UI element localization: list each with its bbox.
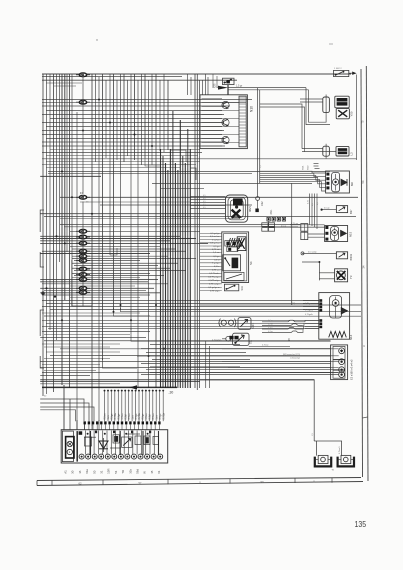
- svg-text:0,7sw: 0,7sw: [268, 320, 273, 322]
- wire R9 to N14 bends: [302, 320, 305, 332]
- svg-text:0,5 gn: 0,5 gn: [324, 208, 330, 210]
- relay N15 unit: [325, 226, 348, 242]
- inductor L3: [323, 144, 349, 159]
- wire switch S62 drop: [356, 75, 358, 161]
- fuse F3: [76, 229, 90, 233]
- fuse F1 main: [76, 191, 90, 200]
- wire main vertical bus x197: [196, 74, 198, 390]
- svg-text:15: 15: [150, 470, 154, 474]
- fuse F7: [76, 254, 90, 258]
- wire lower middle rows: [137, 339, 339, 374]
- wire E2 feed lines: [222, 349, 339, 373]
- wire Y50 feed bend: [300, 88, 330, 125]
- svg-text:,30: ,30: [169, 391, 174, 395]
- fuse F1 top: [76, 73, 90, 77]
- label drop bundle wires: [105, 413, 166, 420]
- svg-text:0,75sw: 0,75sw: [262, 344, 269, 346]
- svg-text:0,75gn/b: 0,75gn/b: [305, 314, 314, 316]
- svg-text:X6/1: X6/1: [270, 209, 273, 215]
- fuse F11: [76, 277, 90, 281]
- svg-text:0,5gn: 0,5gn: [112, 413, 114, 420]
- wire N10 to X32 vertical pair: [258, 88, 262, 197]
- fuse F13: [76, 290, 90, 294]
- stray scan speck right: [329, 43, 333, 45]
- svg-text:L3: L3: [350, 152, 354, 156]
- svg-text:0,75sw/1: 0,75sw/1: [339, 446, 341, 454]
- wire M6/1 feeds: [190, 195, 225, 209]
- ground W11 right cup: [338, 455, 354, 466]
- frame bottom scale bar: [37, 478, 363, 486]
- junction arrow on top feed: [218, 86, 228, 90]
- svg-text:50: 50: [92, 470, 96, 474]
- fuse F10: [76, 272, 90, 276]
- junction blob left edge: [41, 292, 56, 298]
- svg-text:W: W: [332, 470, 335, 472]
- wire X6/1 to N15: [269, 221, 325, 227]
- svg-text:54: 54: [114, 470, 118, 474]
- wire long row y316: [204, 314, 361, 316]
- svg-text:0,5: 0,5: [203, 201, 206, 203]
- bus terminal 30 arrow: [42, 385, 177, 394]
- wire Y3 feeds: [302, 261, 335, 280]
- svg-text:schwarz/gn: schwarz/gn: [290, 358, 300, 360]
- svg-text:S11: S11: [250, 339, 253, 344]
- svg-text:0,5sw: 0,5sw: [105, 413, 107, 419]
- switch S62 top right: [334, 68, 357, 76]
- svg-text:90: 90: [260, 480, 264, 484]
- wire N14 left pins: [303, 301, 319, 329]
- svg-text:X25/: X25/: [215, 83, 217, 88]
- svg-text:X: X: [313, 479, 315, 483]
- svg-text:30: 30: [44, 396, 47, 398]
- svg-text:X: X: [362, 345, 366, 347]
- svg-text:0,75sw/ws: 0,75sw/ws: [212, 339, 221, 341]
- fuse F12: [76, 286, 90, 290]
- wire top feed to Y50 a: [228, 87, 306, 89]
- stray scan speck left: [96, 39, 97, 40]
- connector plugs left of N15: [301, 224, 308, 240]
- svg-text:0,5ge: 0,5ge: [119, 413, 121, 420]
- svg-text:0,5ge: 0,5ge: [143, 413, 145, 420]
- svg-text:A1: A1: [64, 470, 68, 474]
- svg-text:0,5sw: 0,5sw: [129, 413, 131, 419]
- svg-text:E2 e160 e3 e4 e5: E2 e160 e3 e4 e5: [349, 359, 353, 380]
- wire bottom-left bend rows: [40, 396, 94, 422]
- fuse F4: [76, 235, 90, 239]
- svg-text:(W): (W): [292, 303, 296, 305]
- connector pair inline a: [262, 223, 275, 227]
- connector X32: [255, 197, 264, 213]
- wire keyline horizontal y183: [152, 183, 312, 188]
- svg-text:N14: N14: [349, 334, 353, 340]
- svg-text:0,5: 0,5: [312, 202, 314, 206]
- wire N10 top feed verticals: [188, 74, 229, 95]
- wire main vertical bus x199: [199, 80, 201, 388]
- wire left edge corner brackets: [40, 210, 44, 368]
- wire top bus line 5: [54, 85, 76, 87]
- instrument cluster A1 box: [61, 430, 168, 463]
- svg-text:61e: 61e: [85, 469, 89, 474]
- svg-text:1,5sw: 1,5sw: [146, 413, 148, 419]
- svg-text:0,7sw: 0,7sw: [268, 327, 273, 329]
- switch S63 small top: [223, 78, 235, 84]
- svg-text:0,75br: 0,75br: [162, 413, 165, 420]
- svg-text:1,5: 1,5: [260, 164, 262, 168]
- svg-text:S4: S4: [249, 261, 253, 265]
- svg-text:16: 16: [78, 470, 82, 474]
- svg-text:1sw: 1sw: [156, 415, 158, 419]
- svg-text:58d: 58d: [136, 469, 140, 474]
- svg-text:Y50: Y50: [350, 111, 354, 116]
- svg-text:0,5: 0,5: [203, 195, 206, 197]
- svg-text:Y3: Y3: [349, 275, 353, 279]
- wire ground drop bundle: [312, 380, 342, 456]
- fuse F5: [76, 241, 90, 245]
- svg-text:1,5sw: 1,5sw: [122, 413, 124, 419]
- svg-text:0,5gn: 0,5gn: [136, 413, 138, 420]
- svg-text:135: 135: [355, 520, 367, 529]
- wire bundle below M6: [308, 194, 320, 230]
- connector E2 terminal block: [331, 345, 348, 380]
- wire N15 feeds: [290, 223, 325, 237]
- svg-text:15R: 15R: [107, 468, 111, 473]
- svg-text:X5/2: X5/2: [308, 165, 310, 170]
- svg-text:0,5 sw/gn: 0,5 sw/gn: [308, 251, 317, 253]
- svg-text:31: 31: [100, 470, 104, 474]
- wire bus to ground bend: [200, 379, 314, 381]
- svg-text:B30/1: B30/1: [350, 253, 353, 260]
- svg-text:0,5sw: 0,5sw: [153, 413, 155, 419]
- svg-text:S16: S16: [241, 286, 244, 291]
- wire drop bundle to instrument cluster: [104, 390, 165, 422]
- svg-text:W: W: [143, 471, 147, 474]
- frame right inner border line: [361, 69, 363, 477]
- motor M6 relay unit: [326, 171, 350, 193]
- switch S4 ignition assembly: [222, 232, 249, 283]
- connector pair inline b: [262, 228, 275, 232]
- wire top feed to Y50 b: [228, 89, 309, 91]
- connector X5 tick labels: [303, 164, 320, 171]
- switch S11: [222, 333, 253, 345]
- frame right outer border line: [366, 66, 368, 481]
- svg-text:0,75br: 0,75br: [114, 413, 117, 420]
- wire bundle into M6: [260, 171, 326, 191]
- svg-text:0,5bl: 0,5bl: [150, 414, 152, 420]
- wire L3 feeds: [260, 104, 336, 152]
- svg-text:0,5 gr: 0,5 gr: [281, 225, 286, 227]
- wire corner bends mid-left: [103, 158, 205, 368]
- frame right border tick labels: [361, 120, 368, 418]
- svg-text:X5/1: X5/1: [303, 165, 305, 170]
- sensor B30/1: [301, 251, 348, 258]
- connector pin block a: [225, 241, 239, 246]
- connector pin block b: [227, 247, 238, 252]
- wire main vertical bus x195: [194, 74, 196, 388]
- connector X6/1 pin row: [267, 209, 286, 221]
- connector X25/8 labels: [213, 74, 221, 88]
- svg-text:1,5 gr: 1,5 gr: [236, 85, 242, 88]
- wire keyline vertical x259: [259, 90, 261, 183]
- svg-text:1sw: 1sw: [132, 415, 134, 419]
- wire label column center: [200, 233, 222, 292]
- wire long row y311: [200, 310, 361, 312]
- motor M6/1 pump: [226, 195, 248, 222]
- svg-text:S10/1: S10/1: [252, 322, 255, 329]
- svg-text:N10: N10: [250, 106, 254, 112]
- svg-text:(W) braun/sw (179): (W) braun/sw (179): [283, 354, 300, 356]
- fuse F8: [76, 258, 90, 262]
- wire S11 out: [249, 344, 290, 346]
- svg-text:1sw: 1sw: [108, 415, 110, 419]
- sensor B27: [321, 206, 348, 213]
- wire keyline vertical x291: [291, 183, 293, 305]
- ground W10 left cup: [315, 455, 331, 466]
- svg-text:0,75gn: 0,75gn: [305, 303, 311, 305]
- relay N14 preglow unit: [319, 293, 350, 340]
- wire top bus line 3: [42, 79, 237, 81]
- svg-text:M6/1: M6/1: [248, 206, 252, 212]
- switch S16: [224, 284, 244, 291]
- svg-text:30: 30: [71, 470, 75, 474]
- wire left feeds to cluster: [77, 420, 99, 430]
- svg-text:0,5: 0,5: [203, 198, 206, 200]
- svg-text:0,75gn/w: 0,75gn/w: [305, 310, 314, 312]
- svg-text:0,5 br: 0,5 br: [214, 265, 220, 268]
- svg-text:0,5: 0,5: [203, 207, 206, 209]
- svg-text:B27: B27: [349, 209, 353, 214]
- wire left horizontal wire rows: [40, 100, 358, 384]
- svg-text:0,5: 0,5: [203, 204, 206, 206]
- svg-text:X32: X32: [260, 201, 264, 206]
- solenoid valve Y50 assembly: [323, 95, 350, 119]
- svg-text:0,75 sw: 0,75 sw: [291, 223, 298, 225]
- label terminal designations under A1: [64, 468, 162, 473]
- svg-text:0,75br: 0,75br: [138, 413, 141, 420]
- svg-text:M6: M6: [350, 182, 354, 186]
- wire bundle step corners: [171, 150, 197, 180]
- svg-text:TD: TD: [121, 470, 125, 474]
- wire middle vertical cable bundle: [161, 111, 191, 388]
- solenoid valve Y3: [335, 269, 348, 282]
- svg-text:62: 62: [78, 482, 82, 486]
- wire A1 left risers: [64, 385, 70, 430]
- svg-text:0,7sw: 0,7sw: [268, 324, 273, 326]
- svg-text:61: 61: [157, 470, 161, 474]
- wire left vertical bus bundle: [43, 74, 209, 429]
- switch S10/1 group: [219, 318, 255, 330]
- connector pin row above cluster: [84, 421, 161, 430]
- wire top bus line 4: [46, 82, 82, 84]
- svg-text:31b: 31b: [128, 469, 132, 474]
- svg-text:0,5gn: 0,5gn: [160, 413, 162, 420]
- wire top bus terminal 30 line: [42, 73, 351, 75]
- connector pins y336: [229, 336, 238, 340]
- resistor group R9: [262, 320, 302, 333]
- svg-text:0,5bl: 0,5bl: [125, 414, 127, 420]
- svg-text:2: 2: [69, 450, 71, 454]
- wire fuse column spine: [82, 77, 84, 306]
- wire fuse box outline: [72, 260, 92, 306]
- svg-text:N15: N15: [349, 231, 353, 237]
- fuse F2: [76, 100, 90, 104]
- svg-text:1,5: 1,5: [312, 432, 314, 436]
- wire long row y305: [200, 303, 361, 305]
- fuse F6: [76, 249, 90, 253]
- svg-text:1 S62 2: 1 S62 2: [334, 68, 342, 70]
- wire top bus line 2: [42, 76, 182, 78]
- fuse F9: [76, 267, 90, 271]
- svg-text:0,7sw: 0,7sw: [268, 331, 273, 333]
- junction dots scattered: [46, 99, 166, 358]
- op-amp N10 control unit box: [200, 95, 247, 149]
- svg-text:0,5: 0,5: [317, 201, 319, 205]
- frame bottom scale bar labels: [78, 479, 315, 485]
- label E2 e160: [349, 359, 353, 380]
